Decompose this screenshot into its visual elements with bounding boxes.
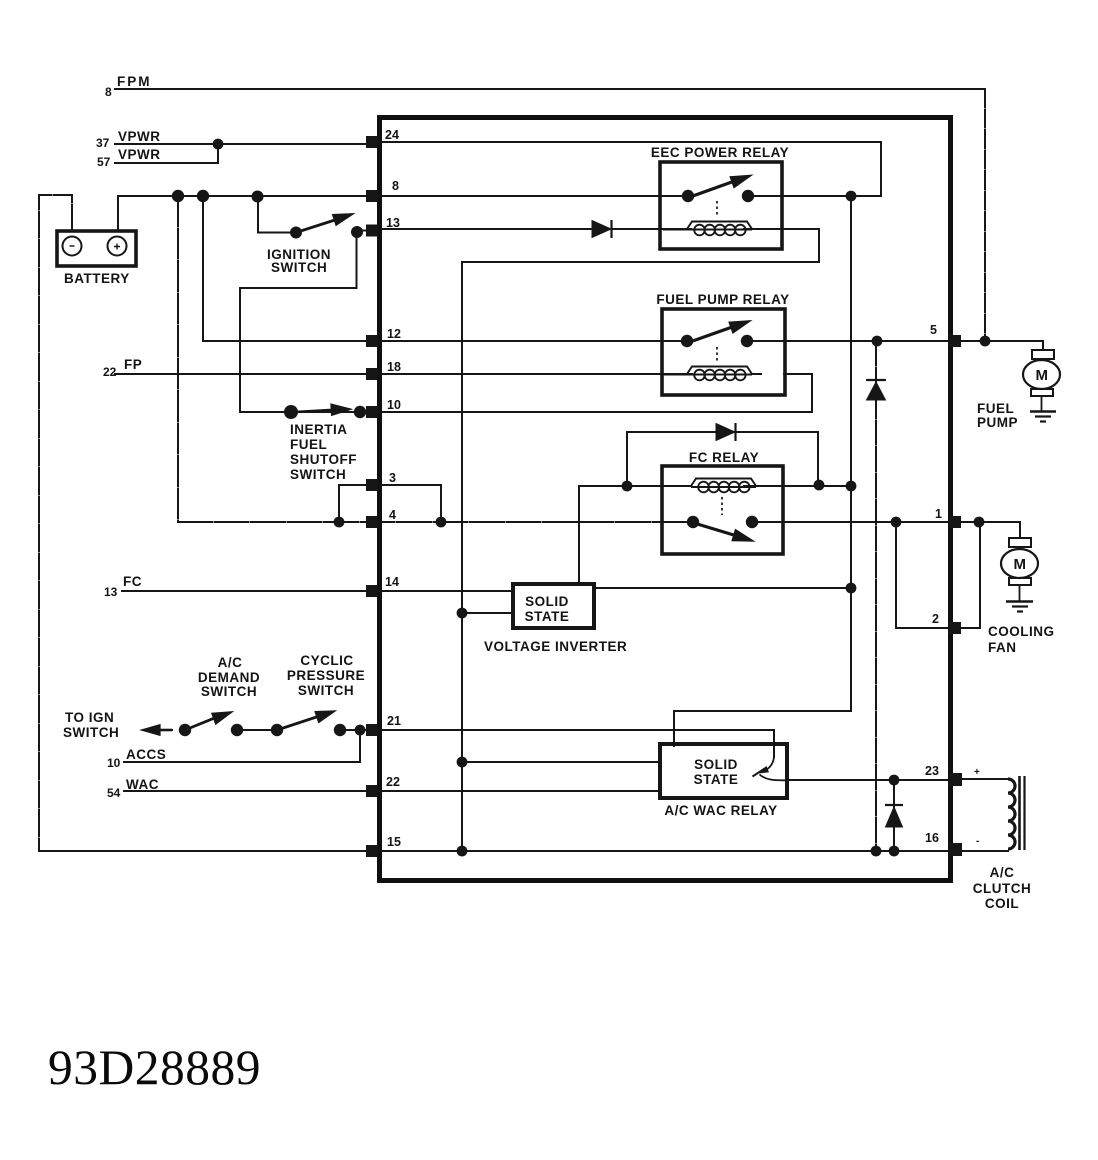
wire pin 3 outside loop [339, 485, 366, 522]
relay box EEC power relay K1 [660, 162, 782, 249]
svg-text:8: 8 [392, 179, 399, 193]
svg-text:STATE: STATE [694, 772, 739, 787]
wire pin 12 to fuel pump relay contact [203, 340, 687, 342]
svg-text:SWITCH: SWITCH [63, 725, 119, 740]
svg-text:A/C: A/C [218, 655, 243, 670]
svg-text:10: 10 [107, 756, 121, 770]
wire diode to EEC coil [612, 228, 691, 230]
battery B1 [57, 231, 136, 266]
cooling fan motor M2 [1001, 538, 1038, 612]
node WAC output diode [889, 775, 900, 786]
contact EEC relay right [742, 190, 754, 202]
node FC coil switched power [846, 481, 857, 492]
svg-text:EEC POWER RELAY: EEC POWER RELAY [651, 145, 789, 160]
switch arm fuel pump relay [687, 326, 735, 343]
wire battery positive to pin 8 [118, 196, 688, 231]
pin 18 [366, 368, 378, 380]
svg-text:2: 2 [932, 612, 939, 626]
wire EEC coil right loop to vertical 462 [462, 229, 819, 262]
wire pins 1-2 outside loop [961, 522, 980, 628]
pin 21 [366, 724, 378, 736]
relay centerline EEC [716, 201, 718, 217]
svg-text:13: 13 [386, 216, 400, 230]
coil FC relay [691, 479, 756, 493]
pin 5 [949, 335, 961, 347]
pin 15 [366, 845, 378, 857]
wire pin 4 line FC relay to pin 1 [752, 521, 950, 523]
wire ACCS to pin 21 junction [124, 730, 360, 762]
diode CR1 on pin 13 line [592, 220, 903, 827]
wire KAPWR branch down to pin 4 line [177, 196, 179, 522]
wire inverter stub from 462 [462, 612, 513, 614]
svg-text:4: 4 [389, 508, 396, 522]
EEC module box [380, 118, 951, 881]
contact cyclic right [334, 724, 346, 736]
node pin5 diode branch [872, 336, 883, 347]
relay centerline fuel pump [716, 347, 718, 363]
wire ignition switch feed [258, 196, 291, 233]
node switched power top [846, 191, 857, 202]
coil EEC relay [663, 222, 760, 236]
battery negative terminal [63, 237, 82, 256]
svg-text:PRESSURE: PRESSURE [287, 668, 365, 683]
wire vertical 462 ignition-run feed [461, 262, 463, 851]
coil fuel pump relay [663, 367, 762, 381]
switch arm A/C demand [185, 717, 218, 730]
wire FP pin 22 to pin 18 and relay coil [115, 373, 692, 375]
svg-text:DEMAND: DEMAND [198, 670, 260, 685]
contact A/C demand left [179, 724, 191, 736]
wire pin 10 inertia line to relay coil loop [240, 374, 812, 412]
node pin3 left loop [334, 517, 345, 528]
svg-text:TO IGN: TO IGN [65, 710, 114, 725]
svg-text:SWITCH: SWITCH [298, 683, 354, 698]
contact inertia right [354, 406, 366, 418]
node FPM fuel pump junction [980, 336, 991, 347]
svg-text:14: 14 [385, 575, 399, 589]
svg-text:A/C WAC RELAY: A/C WAC RELAY [664, 803, 777, 818]
wire pin 24 to EEC relay output [367, 142, 881, 196]
svg-text:COOLING: COOLING [988, 624, 1055, 639]
svg-text:M: M [1014, 556, 1027, 573]
node ground 894 [889, 846, 900, 857]
wire EEC relay switch output [748, 195, 881, 197]
solid state voltage inverter U1 [513, 584, 594, 628]
relay centerline FC [721, 497, 723, 515]
svg-text:-: - [976, 836, 979, 847]
svg-text:8: 8 [105, 85, 112, 99]
svg-text:INERTIA: INERTIA [290, 422, 348, 437]
svg-text:BATTERY: BATTERY [64, 271, 130, 286]
contact fuel pump relay left [681, 335, 693, 347]
svg-text:SOLID: SOLID [525, 594, 569, 609]
svg-text:FC: FC [123, 574, 142, 589]
node ground 876 [871, 846, 882, 857]
node pin1 outside loop [974, 517, 985, 528]
battery minus sign [70, 245, 75, 247]
wire WAC stub from 462 [462, 761, 660, 763]
ground cooling fan [1006, 600, 1033, 603]
svg-text:FP: FP [124, 357, 142, 372]
wire WAC flyback diode 894 [893, 780, 895, 851]
wire ignition switch down to inertia switch [240, 232, 357, 412]
svg-text:CLUTCH: CLUTCH [973, 881, 1032, 896]
node ground 462 [457, 846, 468, 857]
pin 22 [366, 785, 378, 797]
svg-text:STATE: STATE [525, 609, 570, 624]
diode CR4 A/C clutch flyback [886, 807, 903, 827]
wire pin 13 to EEC relay coil diode [367, 228, 592, 230]
contact cyclic left [271, 724, 283, 736]
contact A/C demand right [231, 724, 243, 736]
svg-text:FC RELAY: FC RELAY [689, 450, 759, 465]
node inverter output switched power [846, 583, 857, 594]
svg-text:PUMP: PUMP [977, 415, 1018, 430]
pin 4 [366, 516, 378, 528]
pin 23 [949, 773, 962, 786]
wire pin 4 line left of FC relay [178, 521, 693, 523]
wire WAC relay output to pin 23 [790, 779, 950, 781]
svg-text:FUEL: FUEL [290, 437, 327, 452]
wire branch down to pin 12 [202, 196, 204, 341]
wire switched power vertical 851 to WAC relay [674, 196, 851, 746]
wire FC coil line to inverter top [579, 486, 691, 584]
switch arm EEC relay [145, 177, 750, 735]
svg-text:FAN: FAN [988, 640, 1017, 655]
svg-text:12: 12 [387, 327, 401, 341]
battery positive terminal [108, 237, 127, 256]
wire ignition switch output to pin 13 [356, 230, 368, 232]
wire pin 21 to WAC relay transistor [340, 730, 774, 757]
ground fuel pump [1030, 410, 1056, 413]
svg-text:1: 1 [935, 507, 942, 521]
node WAC stub [457, 757, 468, 768]
svg-text:18: 18 [387, 360, 401, 374]
svg-text:13: 13 [104, 585, 118, 599]
svg-text:FUEL: FUEL [977, 401, 1014, 416]
switch arm inertia [295, 410, 334, 412]
node FC diode loop left [622, 481, 633, 492]
svg-text:93D28889: 93D28889 [48, 1040, 261, 1095]
wire pin 5 line fuel pump relay to fuel pump motor [747, 341, 1043, 350]
pin 12 [366, 335, 378, 347]
svg-text:3: 3 [389, 471, 396, 485]
wire battery negative to ground bus left side [39, 195, 72, 851]
node ignition feed [252, 191, 264, 203]
pin 1 [949, 516, 961, 528]
wire to ign switch stub [152, 729, 172, 731]
pin 16 [949, 843, 962, 856]
pin 10 [366, 406, 378, 418]
wire FC relay diode loop [627, 432, 818, 486]
battery plus sign [114, 244, 120, 250]
wire WAC pin 54 to pin 22 and WAC relay [124, 790, 660, 792]
relay box fuel pump relay K2 [662, 309, 785, 395]
wire pin 1 to cooling fan [961, 522, 1020, 538]
node inverter feed [457, 608, 468, 619]
wire FPM net pin 8 to fuel pump line [115, 88, 985, 90]
wire A/C demand to cyclic switch [237, 729, 277, 731]
svg-text:15: 15 [387, 835, 401, 849]
svg-text:VPWR: VPWR [118, 129, 161, 144]
svg-text:COIL: COIL [985, 896, 1019, 911]
wire FC pin 13 to pin 14 and inverter [122, 590, 513, 592]
wire VPWR pin 57 [115, 144, 218, 163]
clutch plates [1018, 776, 1021, 850]
node pin12 branch [197, 190, 209, 202]
diode CR2 FC relay loop [716, 424, 735, 441]
wire pin 23 to clutch coil [961, 778, 1008, 780]
node KAPWR branch [172, 190, 184, 202]
svg-text:57: 57 [97, 155, 111, 169]
A/C clutch coil L1 [1008, 776, 1025, 850]
wire FC coil right to switched vertical [744, 485, 851, 487]
node FC diode loop right [814, 480, 825, 491]
svg-text:37: 37 [96, 136, 110, 150]
wire inverter output to switched vertical [594, 587, 851, 589]
diode CR3 fuel pump branch [867, 382, 886, 400]
svg-text:VPWR: VPWR [118, 147, 161, 162]
node pin1 inside loop [891, 517, 902, 528]
svg-text:16: 16 [925, 831, 939, 845]
svg-text:21: 21 [387, 714, 401, 728]
pin squares left side [366, 136, 962, 857]
pin 2 [949, 622, 961, 634]
contact ignition right [351, 226, 363, 238]
solid state A/C WAC relay U2 [660, 744, 787, 798]
svg-text:ACCS: ACCS [126, 747, 166, 762]
node pin3 right loop [436, 517, 447, 528]
wire pins 1-2 inside loop [896, 522, 949, 628]
svg-text:A/C: A/C [990, 865, 1015, 880]
svg-text:FUEL PUMP RELAY: FUEL PUMP RELAY [656, 292, 789, 307]
svg-text:54: 54 [107, 786, 121, 800]
svg-text:WAC: WAC [126, 777, 159, 792]
contact ignition left [290, 227, 302, 239]
transistor Q1 in WAC relay [753, 746, 788, 780]
wire diode branch 876 [875, 341, 877, 851]
switch arm FC relay [694, 523, 737, 536]
svg-text:SWITCH: SWITCH [271, 260, 327, 275]
wire ground bus pin 15 to pin 16 and clutch coil [39, 850, 1008, 852]
node VPWR junction [213, 139, 224, 150]
contact FC relay left [687, 516, 699, 528]
svg-text:SHUTOFF: SHUTOFF [290, 452, 357, 467]
pin 24 [366, 136, 378, 148]
svg-text:CYCLIC: CYCLIC [300, 653, 353, 668]
switch arm ignition [296, 219, 338, 233]
svg-text:+: + [974, 767, 980, 778]
svg-text:24: 24 [385, 128, 399, 142]
contact inertia left [284, 405, 298, 419]
svg-text:23: 23 [925, 764, 939, 778]
fuel pump motor M1 [1023, 350, 1060, 422]
arrow to ign switch [156, 729, 172, 732]
pin 14 [366, 585, 378, 597]
pin 13 [366, 225, 378, 237]
svg-text:SWITCH: SWITCH [201, 684, 257, 699]
svg-text:M: M [1036, 367, 1049, 384]
contact fuel pump relay right [741, 335, 753, 347]
svg-text:SOLID: SOLID [694, 757, 738, 772]
switch arm cyclic pressure [277, 716, 321, 731]
svg-text:VOLTAGE INVERTER: VOLTAGE INVERTER [484, 639, 627, 654]
svg-text:FPM: FPM [117, 74, 152, 89]
pin 3 [366, 479, 378, 491]
contact EEC relay left [682, 190, 694, 202]
svg-text:22: 22 [386, 775, 400, 789]
wire VPWR pin 37 to pin 24 [115, 143, 367, 145]
pin 8 [366, 190, 378, 202]
svg-text:10: 10 [387, 398, 401, 412]
wire pin 3 inside loop [380, 485, 441, 522]
svg-text:5: 5 [930, 323, 937, 337]
svg-text:22: 22 [103, 365, 117, 379]
contact FC relay right [746, 516, 758, 528]
node ACCS junction [355, 725, 366, 736]
relay box FC relay K3 [662, 466, 783, 554]
svg-text:SWITCH: SWITCH [290, 467, 346, 482]
